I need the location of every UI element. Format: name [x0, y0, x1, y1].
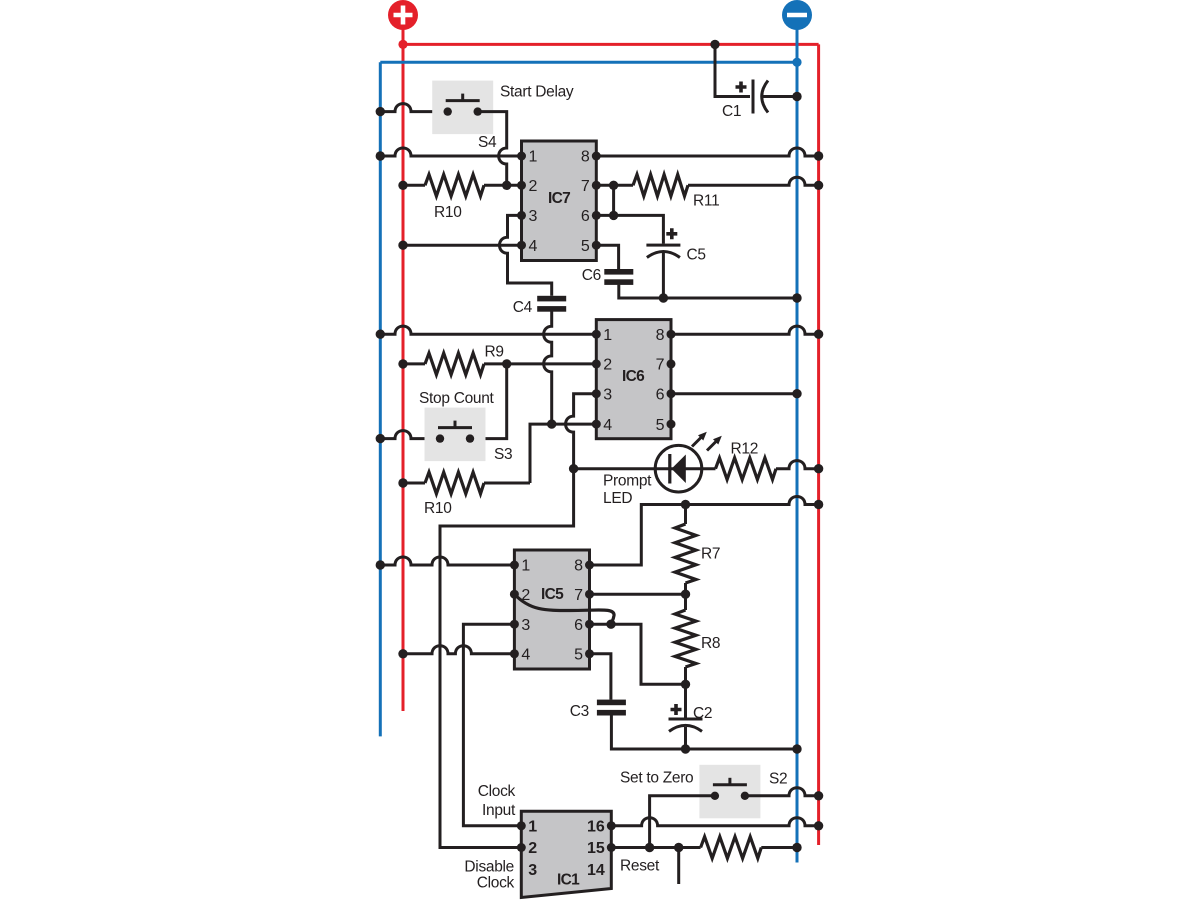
wire: IC5 pin 6 stub	[590, 623, 612, 626]
IC6 pin 7	[667, 359, 676, 368]
node: R9 on red rail	[398, 359, 407, 368]
svg-text:R7: R7	[701, 546, 720, 563]
svg-text:3: 3	[603, 386, 612, 403]
positive supply rail (red)	[403, 27, 819, 845]
svg-text:Reset: Reset	[620, 858, 660, 875]
node: R12 on red rail	[814, 464, 823, 473]
resistor R (reset pull-down)	[701, 837, 762, 859]
svg-text:Stop Count: Stop Count	[419, 390, 495, 407]
svg-text:IC6: IC6	[622, 368, 645, 385]
wire: R9 junction down to S3	[470, 364, 507, 439]
IC7 pin 6	[592, 211, 601, 220]
node: IC7 pin1 feed on blue rail	[376, 151, 385, 160]
wire: R11 to red rail (hops blue)	[688, 177, 819, 185]
wire: IC7 pin 8 to red rail (hops blue)	[596, 148, 818, 156]
node: S2/reset junction	[645, 843, 654, 852]
pushbutton switch S2	[699, 765, 760, 819]
IC5 pin 2	[510, 590, 519, 599]
node: IC6 pin8 on red rail	[814, 330, 823, 339]
svg-text:6: 6	[656, 386, 665, 403]
svg-text:Disable: Disable	[464, 858, 514, 875]
wire: IC5 pin 7 to R7/R8 junction	[590, 593, 686, 596]
node: blue rail corner junction	[792, 58, 801, 67]
node: IC1 pin16 on red rail	[814, 821, 823, 830]
wire: C5 bottom lead	[662, 253, 665, 298]
svg-text:C2: C2	[693, 705, 712, 722]
IC7 pin 4	[517, 241, 526, 250]
wire: R7 bottom lead	[684, 583, 687, 594]
IC7 pin 8	[592, 152, 601, 161]
IC7 pin 3	[517, 211, 526, 220]
IC5 pin 4	[510, 649, 519, 658]
IC5 pin 6	[585, 620, 594, 629]
svg-text:3: 3	[529, 208, 538, 225]
wire: blue rail to S4 (hops red rail)	[380, 104, 447, 112]
svg-text:Prompt: Prompt	[603, 473, 652, 490]
svg-text:1: 1	[528, 819, 537, 836]
svg-text:C4: C4	[513, 299, 533, 316]
node: junction R9/S3	[502, 359, 511, 368]
IC1 pin 1	[517, 821, 526, 830]
resistor R10 (upper)	[425, 175, 484, 197]
svg-text:8: 8	[581, 149, 590, 166]
svg-text:IC7: IC7	[548, 190, 570, 207]
svg-text:1: 1	[521, 558, 530, 575]
node: S3 feed on blue rail	[376, 434, 385, 443]
IC1 pin 16	[607, 821, 616, 830]
wire: C2 top lead	[684, 684, 687, 717]
capacitor C1 (polarized)	[736, 80, 769, 114]
node: junction pin6/C5 link	[609, 211, 618, 220]
wire: R7 row to red rail (hops blue)	[686, 496, 819, 504]
wire: S2 right to red rail (hops blue)	[745, 788, 819, 796]
pushbutton switch S3	[425, 408, 486, 462]
node: R10 on red rail	[398, 181, 407, 190]
node: R8/C2 junction	[681, 680, 690, 689]
wire: S4 to IC7 pin 2 (hops pin1 wire)	[478, 112, 507, 186]
svg-text:3: 3	[528, 862, 537, 879]
svg-text:5: 5	[574, 647, 583, 664]
svg-text:LED: LED	[603, 490, 632, 507]
resistor R8	[675, 610, 696, 667]
IC6 pin 8	[667, 330, 676, 339]
wire: IC5 pin 5 to C3	[590, 654, 611, 700]
svg-text:1: 1	[603, 327, 612, 344]
wire: C5/C6 junction to blue rail	[663, 297, 797, 300]
wire: blue rail to IC5 pin 1 (hops red rail and clock drop)	[380, 557, 514, 565]
svg-text:6: 6	[581, 208, 590, 225]
IC1 pin 15	[607, 843, 616, 852]
wire: pin6 junction to R8/C2 junction	[611, 624, 686, 684]
wire: IC7 pin 7 to R11	[596, 184, 633, 187]
node: IC6 pin1 feed on blue rail	[376, 330, 385, 339]
battery negative terminal (-)	[782, 0, 812, 30]
negative supply rail (blue)	[380, 27, 797, 863]
wire: red rail to IC7 pin 4	[403, 244, 522, 247]
IC5 pin 5	[585, 649, 594, 658]
svg-text:R10: R10	[424, 500, 452, 517]
svg-text:4: 4	[521, 647, 530, 664]
svg-text:2: 2	[603, 357, 612, 374]
wire: red rail to R10 lower	[403, 482, 425, 485]
svg-text:IC1: IC1	[557, 872, 580, 889]
node: R7/R8/IC5 pin7 junction	[681, 590, 690, 599]
wire: S2 left down to IC1 pin 15 row	[650, 796, 715, 848]
capacitor C6	[604, 269, 633, 285]
node: junction S4/R10/IC7 pin2	[502, 181, 511, 190]
wire: ground row to blue rail	[686, 748, 798, 751]
node: IC5 pin4 feed on red rail	[398, 649, 407, 658]
svg-text:R8: R8	[701, 635, 720, 652]
svg-text:7: 7	[656, 357, 665, 374]
wire: red rail to C1 positive plate	[715, 44, 750, 96]
svg-text:15: 15	[587, 840, 605, 857]
wire: pin6 junction to C5	[614, 215, 664, 243]
svg-text:C1: C1	[722, 103, 741, 120]
IC U1 body (IC1, torn edge at image crop)	[521, 811, 611, 897]
node: red rail corner junction	[398, 40, 407, 49]
IC5 pin 3	[510, 620, 519, 629]
svg-text:S3: S3	[494, 446, 512, 463]
wire: reset stub down (to circuit below crop)	[677, 848, 680, 885]
node: C1 on blue rail	[792, 92, 801, 101]
svg-text:R10: R10	[434, 204, 462, 221]
wire: R10 lower to corner	[484, 482, 530, 485]
wire: C4 bottom to IC6 pin4 row (hops IC6 pin1,pin2 wires)	[544, 311, 552, 424]
wire: R10 lower to IC6 pin 4	[530, 424, 596, 483]
wire: red rail to R10	[403, 184, 425, 187]
wire: link IC7 pins 7-6	[612, 185, 615, 215]
svg-text:Set to Zero: Set to Zero	[620, 770, 693, 787]
svg-text:2: 2	[528, 840, 537, 857]
wire: IC6 pin 3 to IC1 pin 2 (hops pin4 wire)	[440, 394, 596, 848]
wire: IC6 pin 8 to red rail (hops blue)	[671, 326, 819, 334]
node: S4 feed on blue rail	[376, 107, 385, 116]
svg-text:Start Delay: Start Delay	[500, 84, 574, 101]
node: LED tap junction	[569, 464, 578, 473]
wire: R7 top lead	[684, 505, 687, 525]
wire: R12 to red rail (hops blue)	[776, 461, 819, 469]
wire: C2 bottom lead	[684, 727, 687, 749]
svg-text:5: 5	[656, 417, 665, 434]
wire: IC1 pin 15 reset row	[611, 846, 700, 849]
svg-text:6: 6	[574, 617, 583, 634]
node: S2 on red rail	[814, 791, 823, 800]
resistor R12	[716, 458, 777, 480]
IC U7 body (IC7)	[522, 141, 597, 261]
IC U5 body (IC5)	[514, 550, 589, 669]
wire: IC1 pin 16 to red rail (hops S2 drop and blue)	[611, 818, 818, 826]
IC7 pin 7	[592, 181, 601, 190]
node: C4/IC6 pin4 junction	[547, 419, 556, 428]
wire: IC6 pin 6 to blue rail	[671, 392, 797, 395]
svg-text:Clock: Clock	[477, 875, 515, 892]
svg-text:8: 8	[574, 558, 583, 575]
IC5 pin 7	[585, 590, 594, 599]
capacitor C2 (polarized)	[669, 704, 703, 731]
IC6 pin 5	[667, 420, 676, 429]
IC6 pin 6	[667, 389, 676, 398]
wire: R9 to IC6 pin 2	[484, 362, 596, 365]
node: reset stub junction	[674, 843, 683, 852]
IC6 pin 2	[592, 359, 601, 368]
svg-text:16: 16	[587, 819, 605, 836]
capacitor C3	[597, 700, 626, 716]
svg-text:R11: R11	[693, 193, 719, 210]
wire: IC7 pin 5 to C6	[596, 245, 618, 269]
IC7 pin 5	[592, 241, 601, 250]
svg-text:C5: C5	[687, 247, 706, 264]
capacitor C4	[537, 296, 566, 312]
IC U6 body (IC6)	[596, 320, 671, 439]
pushbutton switch S4	[432, 81, 493, 135]
svg-text:7: 7	[581, 178, 590, 195]
svg-text:2: 2	[529, 178, 538, 195]
node: R11 on red rail	[814, 181, 823, 190]
svg-text:3: 3	[521, 617, 530, 634]
resistor R10 (lower)	[425, 472, 484, 494]
svg-text:C3: C3	[570, 703, 589, 720]
node: C5/C6 ground junction	[659, 293, 668, 302]
wire: C6 bottom to ground bus	[619, 285, 664, 298]
node: R7 row on red rail	[814, 500, 823, 509]
capacitor C5 (polarized)	[646, 228, 680, 257]
wire: red rail to IC5 pin 4 (hops two drops)	[403, 646, 514, 654]
IC6 pin 3	[592, 389, 601, 398]
svg-text:Input: Input	[482, 802, 516, 819]
svg-text:14: 14	[587, 862, 605, 879]
svg-text:R12: R12	[731, 441, 759, 458]
wire: C3 bottom to ground row	[611, 716, 685, 750]
wire: IC5 pin 8 riser to R7 row	[590, 505, 686, 566]
wire: IC7 pin 3 to C4 (hops pin4 wire)	[499, 215, 551, 295]
resistor R7	[675, 524, 696, 583]
IC6 pin 1	[592, 330, 601, 339]
IC5 pin 1	[510, 561, 519, 570]
svg-text:1: 1	[529, 149, 538, 166]
svg-text:R9: R9	[485, 344, 504, 361]
IC7 pin 1	[517, 152, 526, 161]
node: C2/C3 ground junction	[681, 744, 690, 753]
LED D1 (Prompt LED)	[655, 432, 722, 492]
wire: blue rail to IC7 pin 1 (hops red rail)	[380, 148, 521, 156]
wire: R8 bottom lead	[684, 667, 687, 684]
node: IC5 pin1 feed on blue rail	[376, 560, 385, 569]
IC7 pin 2	[517, 181, 526, 190]
node: junction pin7/R11 link	[609, 181, 618, 190]
IC5 pin 8	[585, 561, 594, 570]
wire: LED row	[574, 467, 716, 470]
resistor R11	[633, 175, 688, 197]
wire: R8 top lead	[684, 594, 687, 610]
node: IC7 pin4 feed on red rail	[398, 241, 407, 250]
IC6 pin 4	[592, 420, 601, 429]
battery positive terminal (+)	[388, 0, 418, 30]
svg-text:4: 4	[529, 238, 538, 255]
node: reset resistor on blue rail	[792, 843, 801, 852]
svg-text:4: 4	[603, 417, 612, 434]
svg-text:IC5: IC5	[541, 586, 564, 603]
node: C1 tap on red feed	[710, 40, 719, 49]
svg-text:C6: C6	[582, 267, 601, 284]
wire: blue rail to IC6 pin 1 (hops red rail)	[380, 326, 596, 334]
wire: IC7 pin 6 stub	[596, 214, 613, 217]
wire: R10 to IC7 pin 2	[484, 184, 522, 187]
node: R10b on red rail	[398, 478, 407, 487]
wire: C1 negative plate to blue rail	[762, 95, 798, 98]
node: IC6 pin6 on blue rail	[792, 389, 801, 398]
node: C2/C3 ground on blue rail	[792, 744, 801, 753]
svg-text:S4: S4	[478, 134, 497, 151]
node: IC5 pin6/jumper junction	[606, 620, 615, 629]
wire: IC5 pin 3 to IC1 pin 1 (clock input)	[463, 624, 521, 826]
svg-text:8: 8	[656, 327, 665, 344]
node: IC7 pin8 on red rail	[814, 151, 823, 160]
wire: IC5 pin2 jumper curve to pin 6	[514, 594, 614, 624]
svg-text:Clock: Clock	[478, 783, 516, 800]
resistor R9	[425, 353, 484, 375]
IC1 pin 2	[517, 843, 526, 852]
svg-text:5: 5	[581, 238, 590, 255]
wire: reset resistor to blue rail	[761, 846, 797, 849]
wire: blue rail to S3 (hops red rail)	[380, 431, 440, 439]
svg-text:7: 7	[574, 587, 583, 604]
node: R7 top junction	[681, 500, 690, 509]
svg-text:S2: S2	[769, 771, 787, 788]
node: C5/C6 ground on blue rail	[792, 293, 801, 302]
wire: red rail to R9	[403, 362, 425, 365]
